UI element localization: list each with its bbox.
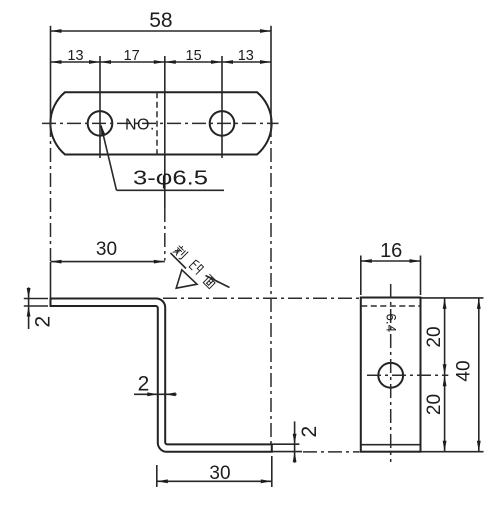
- dim 30 bottom left extension: [156, 465, 158, 487]
- dimension row 13/17/15/13 line: [51, 61, 272, 63]
- svg-text:2: 2: [138, 373, 150, 396]
- Z profile outline (side view): [51, 299, 272, 452]
- hole H1 left (φ6.5): [88, 111, 113, 136]
- dimension 58 arrow left: [51, 29, 62, 33]
- marking label underline segment A: [171, 253, 187, 269]
- dim 30 top line: [51, 261, 165, 263]
- dim 30 bottom right extension: [271, 456, 273, 487]
- row arrows at 100: [89, 60, 100, 64]
- svg-text:13: 13: [238, 48, 254, 64]
- svg-text:20: 20: [424, 394, 445, 415]
- marking surface label kanji 2 (印, rotated 45, hand-drawn): [189, 260, 204, 275]
- dim 2 left dimension line: [28, 287, 30, 329]
- dim 2 bottom-right arrow down: [293, 434, 297, 445]
- right extension line x=271: [270, 26, 272, 123]
- dim 2 left extension top: [24, 298, 48, 300]
- dim 2 left extension bottom: [24, 305, 48, 307]
- svg-text:40: 40: [454, 360, 475, 381]
- svg-text:30: 30: [209, 463, 230, 484]
- right view hole: [378, 363, 403, 388]
- svg-text:20: 20: [424, 326, 445, 347]
- hole H2 extension line: [221, 56, 223, 158]
- marking label underline segment B: [206, 276, 230, 288]
- dim 2 bottom-right arrow up: [293, 452, 297, 463]
- right view hidden line (top bend inner): [361, 305, 420, 307]
- dim 30 top arrow left: [51, 260, 62, 264]
- dim 2 web arrow left (tip at web left face): [147, 392, 158, 396]
- row arrows at 222: [211, 60, 222, 64]
- dim 2 web dimension line: [134, 393, 177, 395]
- dim 16 extension left: [360, 256, 362, 296]
- hole H2 right (φ6.5): [210, 111, 235, 136]
- dim 2 web arrow right (tip at web right face): [165, 392, 176, 396]
- projection centerline top flange to right view: [163, 297, 360, 299]
- svg-text:13: 13: [67, 48, 83, 64]
- right view bottom extension line: [421, 451, 484, 453]
- dim 2 left arrow up: [27, 306, 31, 317]
- right view rectangle: [361, 298, 421, 452]
- right view hole horizontal centerline: [367, 374, 448, 376]
- dim 40 dimension line: [478, 298, 480, 452]
- svg-text:6.4: 6.4: [384, 313, 399, 332]
- plate horizontal centerline: [42, 122, 279, 124]
- svg-text:2: 2: [298, 426, 321, 438]
- svg-text:3-φ6.5: 3-φ6.5: [133, 168, 208, 190]
- leader underline: [117, 189, 225, 191]
- row arrow at 50.5: [51, 60, 62, 64]
- plate outline (top view, stadium shape): [50, 92, 271, 154]
- svg-text:16: 16: [380, 240, 402, 262]
- marking surface triangle symbol: [176, 270, 197, 288]
- leader line for hole note: [101, 126, 117, 191]
- dim 16 extension right: [420, 256, 422, 296]
- dim 20/20 dimension line: [444, 298, 446, 452]
- left projection solid to flange: [50, 262, 52, 298]
- svg-text:15: 15: [186, 48, 202, 64]
- dim 2 bottom-right extension bottom: [273, 451, 303, 453]
- dim 40 arrow top: [477, 298, 481, 309]
- svg-text:NO.: NO.: [125, 117, 155, 134]
- dim 20 arrow bottom: [443, 441, 447, 452]
- dimension 58 arrow right: [260, 29, 271, 33]
- dim 2 bottom-right extension top: [273, 443, 300, 445]
- right projection centerline x=271: [270, 123, 272, 448]
- right view vertical centerline: [390, 284, 392, 462]
- dim 2 left arrow down: [27, 288, 31, 299]
- marking surface label kanji 3 (面, rotated 45, hand-drawn): [202, 274, 217, 289]
- dim 16 arrow left: [361, 259, 372, 263]
- hidden bend line (dashed) in plate: [156, 92, 158, 154]
- row arrow at 271: [260, 60, 271, 64]
- leader arrowhead: [101, 124, 106, 135]
- dim 40 arrow bottom: [477, 441, 481, 452]
- bend extension line solid x=164.8: [164, 56, 166, 208]
- hole H1 extension line: [99, 56, 101, 158]
- marking surface label kanji 1 (刻, rotated 45, hand-drawn): [173, 244, 188, 259]
- svg-text:58: 58: [149, 9, 172, 32]
- right view top extension line: [421, 297, 484, 299]
- svg-text:2: 2: [32, 316, 55, 328]
- projection centerline bottom flange to right view: [303, 451, 360, 453]
- row arrows at 164.8: [154, 60, 165, 64]
- dim 20 arrows middle: [443, 364, 447, 375]
- svg-text:17: 17: [124, 48, 140, 64]
- dim 16 dimension line: [361, 260, 421, 262]
- bend centerline dash-dot x=164.8: [164, 208, 166, 261]
- svg-text:30: 30: [96, 239, 117, 260]
- dimension 58 line: [51, 30, 272, 32]
- right view bottom flange edge line: [361, 444, 420, 446]
- left extension line x=50.5: [50, 26, 52, 123]
- dim 2 bottom-right dimension line: [294, 421, 296, 462]
- dim 16 arrow right: [410, 259, 421, 263]
- dim 20 arrow top: [443, 298, 447, 309]
- dim 30 bottom arrow left: [157, 479, 168, 483]
- dim 30 bottom arrow right: [261, 479, 272, 483]
- dim 30 top arrow right: [154, 260, 165, 264]
- dim 30 bottom dimension line: [157, 480, 272, 482]
- left projection centerline x=50.5: [50, 123, 52, 261]
